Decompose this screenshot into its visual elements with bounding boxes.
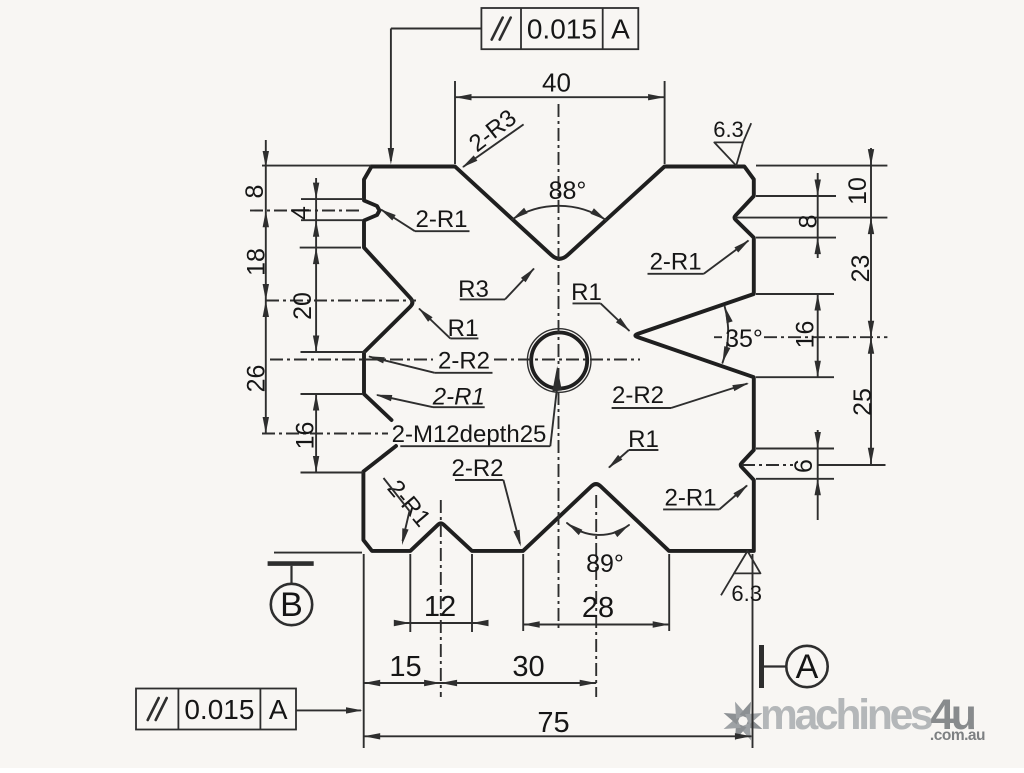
svg-text:R1: R1 (571, 279, 602, 306)
svg-text:0.015: 0.015 (527, 14, 597, 45)
svg-text:6.3: 6.3 (713, 117, 744, 142)
svg-text:20: 20 (289, 292, 317, 320)
svg-text:A: A (269, 694, 288, 725)
svg-text:2-R1: 2-R1 (664, 484, 716, 511)
svg-text:16: 16 (792, 321, 820, 349)
svg-text:A: A (796, 648, 819, 686)
svg-text:2-R1: 2-R1 (415, 206, 467, 233)
svg-text:2-R2: 2-R2 (612, 382, 664, 409)
svg-text:35°: 35° (725, 325, 763, 353)
svg-text:40: 40 (542, 68, 571, 98)
svg-text:18: 18 (243, 248, 271, 276)
svg-text:4: 4 (287, 206, 315, 220)
svg-text:15: 15 (389, 651, 421, 683)
svg-text:B: B (280, 586, 303, 624)
svg-text:8: 8 (795, 215, 823, 229)
svg-text:88°: 88° (549, 177, 587, 205)
svg-text:2-R1: 2-R1 (650, 249, 702, 276)
svg-text:30: 30 (512, 651, 544, 683)
svg-text:6.3: 6.3 (731, 581, 762, 606)
svg-text:A: A (611, 14, 630, 45)
svg-text:2-R2: 2-R2 (438, 347, 490, 374)
svg-text:R1: R1 (628, 426, 659, 453)
svg-text:12: 12 (424, 591, 456, 623)
svg-text:0.015: 0.015 (184, 694, 254, 725)
svg-text:89°: 89° (586, 550, 624, 578)
svg-text:10: 10 (844, 177, 872, 205)
svg-text:16: 16 (292, 422, 320, 450)
svg-text:6: 6 (790, 459, 818, 473)
svg-text:28: 28 (582, 592, 614, 624)
svg-text:23: 23 (847, 255, 875, 283)
svg-text:26: 26 (243, 365, 271, 393)
svg-text:25: 25 (849, 388, 877, 416)
svg-text:2-R2: 2-R2 (451, 455, 503, 482)
svg-text:75: 75 (537, 707, 569, 739)
svg-text:2-M12depth25: 2-M12depth25 (392, 421, 547, 448)
svg-text:8: 8 (241, 185, 269, 199)
svg-text:.com.au: .com.au (930, 727, 985, 744)
